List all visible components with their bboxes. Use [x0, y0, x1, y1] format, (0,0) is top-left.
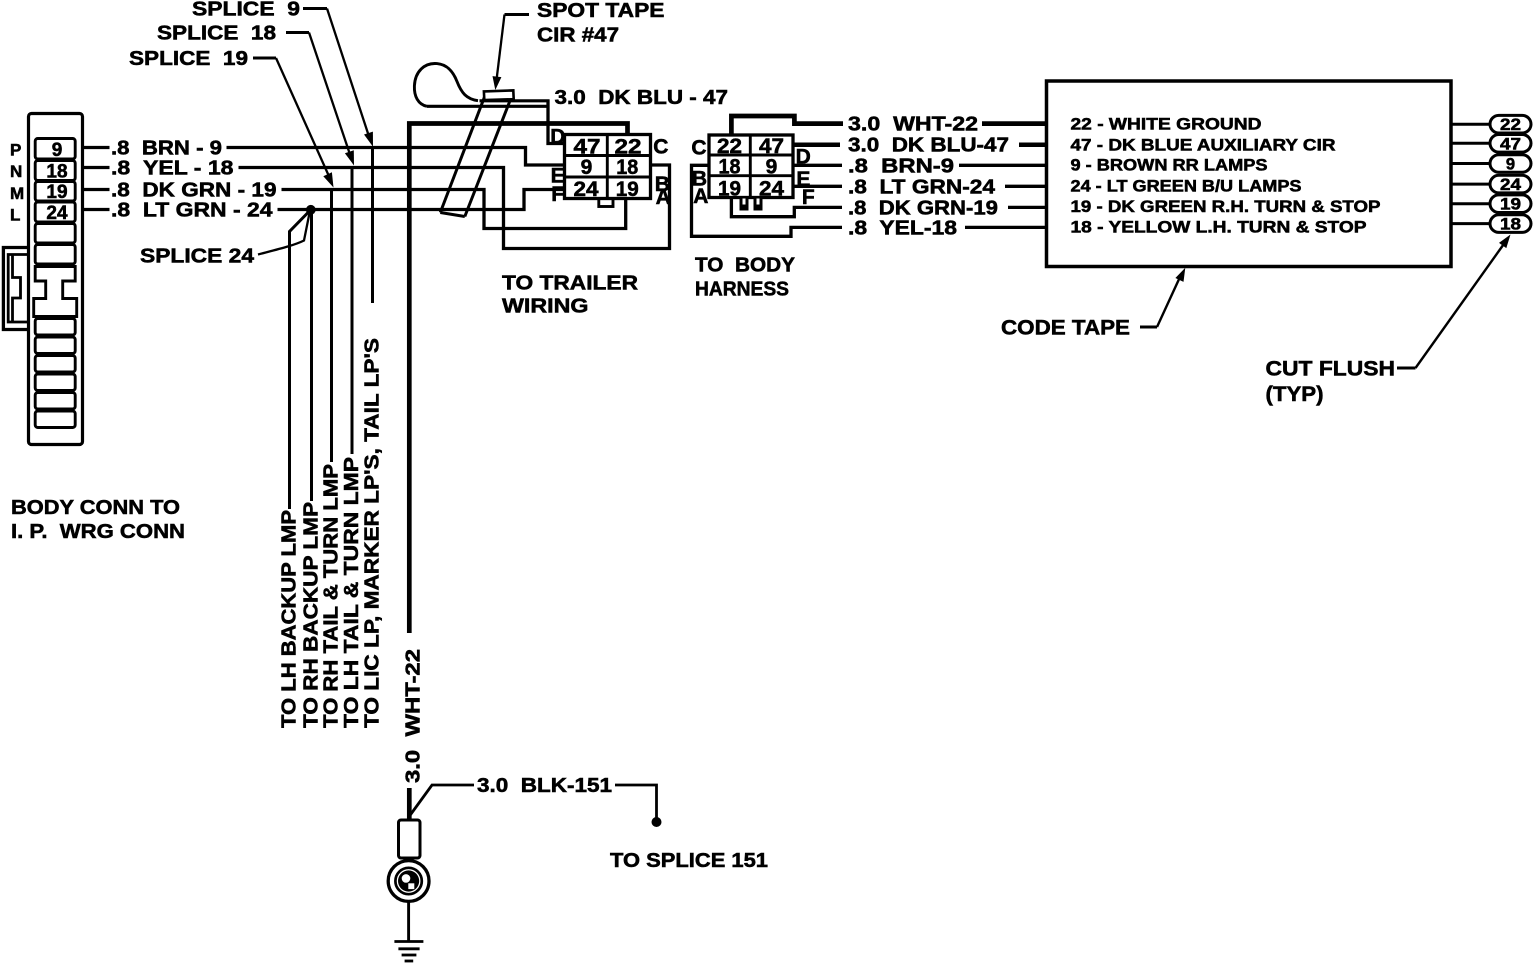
svg-text:.8 BRN - 9: .8 BRN - 9	[111, 138, 222, 160]
connector J1 pin letters P N M L	[10, 141, 24, 225]
svg-text:19 - DK GREEN R.H. TURN & STOP: 19 - DK GREEN R.H. TURN & STOP	[1071, 198, 1381, 216]
connector BODY cavity numbers	[717, 135, 784, 200]
svg-text:F: F	[551, 183, 564, 206]
svg-text:D: D	[550, 125, 565, 148]
wire lead end 22	[1490, 115, 1531, 134]
svg-text:22: 22	[1500, 116, 1521, 134]
svg-text:L: L	[10, 206, 20, 225]
tape band diagonal right	[465, 93, 513, 217]
svg-text:F: F	[802, 186, 815, 209]
tape band diagonal left	[440, 93, 486, 213]
svg-text:SPLICE 19: SPLICE 19	[129, 48, 248, 70]
wire lead end 47	[1490, 135, 1531, 154]
wire stub to lead 24	[1451, 183, 1491, 186]
svg-text:24: 24	[46, 203, 68, 224]
wire drop TO RH BACKUP LMP	[301, 212, 323, 728]
wire .8 YEL-18 from cavity 18 around left	[692, 165, 843, 236]
wire stub to lead 18	[1451, 222, 1491, 225]
svg-text:3.0 WHT-22: 3.0 WHT-22	[402, 649, 424, 783]
svg-text:TO TRAILER: TO TRAILER	[502, 272, 639, 294]
wire .8 YEL-18 run to trailer pin B	[239, 165, 670, 249]
wire 3.0 WHT-22 to code tape box	[982, 121, 1047, 126]
svg-text:TO BODY: TO BODY	[695, 255, 796, 277]
label TO BODY HARNESS	[695, 255, 796, 301]
connector TRAILER index tab	[599, 199, 613, 207]
label TO TRAILER WIRING	[502, 272, 639, 317]
ground symbol	[394, 942, 423, 962]
wire stub to lead 9	[1451, 162, 1491, 165]
svg-text:3.0 DK BLU - 47: 3.0 DK BLU - 47	[555, 87, 729, 109]
connector J1 center key I-beam	[34, 267, 77, 317]
wire .8 LT GRN-24 stub from pin F	[793, 185, 842, 188]
svg-text:.8 LT GRN - 24: .8 LT GRN - 24	[111, 200, 274, 222]
svg-text:TO LIC LP, MARKER LP'S, TAIL L: TO LIC LP, MARKER LP'S, TAIL LP'S	[362, 338, 384, 728]
terminal ring eyelet	[388, 861, 429, 902]
svg-text:24: 24	[1500, 176, 1522, 194]
wire .8 LT GRN-24 run to trailer pin F	[278, 190, 565, 210]
leader CUT FLUSH arrow to lead 18	[1397, 235, 1511, 369]
svg-text:SPOT TAPE: SPOT TAPE	[537, 0, 665, 22]
svg-text:(TYP): (TYP)	[1266, 383, 1324, 406]
wire stub to lead 22	[1451, 123, 1491, 126]
svg-text:A: A	[693, 185, 708, 208]
svg-text:19: 19	[718, 177, 741, 200]
svg-text:.8 LT GRN-24: .8 LT GRN-24	[848, 176, 996, 198]
wire drop TO LIC LP, MARKER LP'S, TAIL LP'S	[362, 148, 384, 729]
svg-text:TO LH TAIL & TURN LMP: TO LH TAIL & TURN LMP	[341, 457, 363, 728]
svg-text:47: 47	[1500, 135, 1521, 153]
wire drop TO LH BACKUP LMP	[279, 211, 310, 728]
svg-text:M: M	[10, 184, 24, 203]
svg-text:18: 18	[1500, 216, 1521, 234]
wire .8 BRN-9 run to trailer pin E	[227, 148, 565, 166]
wire .8 LT GRN-24 to code tape box	[1005, 185, 1047, 188]
wire 3.0 WHT-22 main run	[409, 124, 627, 634]
connector J1 cavity 9	[35, 139, 75, 161]
wire .8 DK GRN-19 to code tape box	[1008, 206, 1047, 209]
wire 47 pigtail loop	[414, 64, 478, 107]
wire 3.0 WHT-22 lower stub	[407, 788, 412, 820]
svg-text:19: 19	[616, 178, 639, 201]
terminal butt splice	[399, 820, 421, 858]
svg-text:9: 9	[1506, 156, 1515, 174]
leader SPOT TAPE arrow	[493, 15, 530, 91]
svg-text:TO RH TAIL & TURN LMP: TO RH TAIL & TURN LMP	[321, 464, 343, 728]
label CUT FLUSH (TYP)	[1266, 358, 1396, 407]
svg-text:22 - WHITE GROUND: 22 - WHITE GROUND	[1071, 116, 1262, 134]
svg-text:.8 BRN-9: .8 BRN-9	[848, 155, 954, 177]
svg-text:.8 DK GRN - 19: .8 DK GRN - 19	[111, 180, 277, 202]
svg-text:SPLICE 18: SPLICE 18	[157, 23, 276, 45]
svg-text:I. P. WRG CONN: I. P. WRG CONN	[11, 521, 185, 543]
svg-text:TO LH BACKUP LMP: TO LH BACKUP LMP	[279, 510, 301, 728]
leader SPLICE 18	[286, 33, 354, 166]
svg-text:18: 18	[719, 156, 741, 179]
svg-text:19: 19	[46, 182, 67, 203]
svg-text:CUT FLUSH: CUT FLUSH	[1266, 358, 1396, 381]
svg-text:N: N	[10, 162, 22, 181]
leader 3.0 BLK-151	[410, 785, 475, 816]
wire 47 lower run	[427, 105, 550, 108]
wire .8 YEL-18 stub	[83, 166, 110, 169]
svg-text:9: 9	[766, 156, 778, 179]
wire to splice 151 with dot	[615, 785, 662, 827]
wire .8 DK GRN-19 from cavity 19 under connector	[731, 198, 842, 217]
svg-text:CIR #47: CIR #47	[537, 25, 619, 47]
svg-text:P: P	[10, 141, 21, 160]
wire 3.0 DK BLU-47 drop to pin D	[548, 100, 565, 144]
svg-text:A: A	[656, 186, 671, 209]
spot tape marker rectangle	[484, 90, 514, 100]
leader SPLICE 19	[253, 58, 334, 188]
wire .8 BRN-9 to code tape box	[959, 164, 1047, 167]
connector J1 body-conn-to-IP outer shell	[29, 114, 83, 445]
svg-text:24: 24	[574, 178, 599, 201]
wire stub to lead 19	[1451, 202, 1491, 205]
svg-text:24 - LT GREEN B/U LAMPS: 24 - LT GREEN B/U LAMPS	[1071, 178, 1302, 196]
svg-text:C: C	[691, 136, 706, 159]
splice junction dot S24	[306, 205, 316, 215]
wire lead end 19	[1490, 195, 1531, 214]
connector J1 empty cavities upper	[35, 224, 75, 265]
svg-text:HARNESS: HARNESS	[695, 279, 789, 301]
connector BODY grid outline	[709, 135, 793, 198]
connector TRAILER grid outline	[565, 135, 651, 199]
connector J1 cavity 18	[35, 161, 75, 183]
wire drop TO RH TAIL & TURN LMP	[321, 190, 343, 729]
connector BODY lock tabs	[740, 199, 763, 211]
tape band bottom edge	[440, 213, 465, 217]
svg-text:.8 YEL - 18: .8 YEL - 18	[111, 158, 234, 180]
svg-text:9 - BROWN RR LAMPS: 9 - BROWN RR LAMPS	[1071, 157, 1268, 175]
svg-text:CODE TAPE: CODE TAPE	[1001, 317, 1130, 340]
wire lead end 9	[1490, 155, 1531, 174]
wire 3.0 DK BLU-47 stub from pin D	[793, 142, 840, 147]
svg-text:18: 18	[46, 161, 67, 182]
svg-text:3.0 BLK-151: 3.0 BLK-151	[477, 775, 612, 797]
connector TRAILER cavity numbers	[574, 136, 642, 202]
svg-text:WIRING: WIRING	[502, 295, 589, 317]
svg-text:3.0 DK BLU-47: 3.0 DK BLU-47	[848, 135, 1009, 157]
svg-text:19: 19	[1500, 196, 1521, 214]
leader SPLICE 9	[303, 9, 373, 147]
wire .8 BRN-9 stub from pin E	[793, 164, 842, 167]
wire .8 DK GRN-19 stub	[83, 188, 110, 191]
wire .8 DK GRN-19 run to trailer pin A	[282, 190, 626, 229]
svg-text:SPLICE 9: SPLICE 9	[192, 0, 300, 21]
svg-text:24: 24	[759, 177, 784, 200]
wire .8 YEL-18 to code tape box	[965, 226, 1047, 229]
wire 47 upper run	[480, 99, 550, 102]
wire 3.0 WHT-22 from pin C over top	[731, 116, 843, 135]
wire lead end 18	[1490, 215, 1531, 234]
svg-text:47 - DK BLUE AUXILIARY CIR: 47 - DK BLUE AUXILIARY CIR	[1071, 137, 1336, 155]
connector J1 mounting bracket	[3, 248, 28, 330]
wire lead end 24	[1490, 175, 1531, 194]
svg-text:.8 YEL-18: .8 YEL-18	[848, 217, 957, 239]
svg-text:18 - YELLOW L.H. TURN & STOP: 18 - YELLOW L.H. TURN & STOP	[1071, 219, 1367, 237]
wire 3.0 DK BLU-47 to code tape box	[1019, 142, 1047, 147]
svg-text:18: 18	[616, 156, 638, 179]
connector J1 cavity 19	[35, 182, 75, 203]
wire .8 LT GRN-24 stub	[83, 208, 110, 211]
label BODY CONN TO I.P. WRG CONN	[11, 497, 185, 543]
svg-text:SPLICE 24: SPLICE 24	[140, 246, 255, 268]
wire .8 BRN-9 stub	[83, 146, 110, 149]
leader SPLICE 24 curved	[258, 213, 310, 255]
ground lead	[407, 902, 410, 942]
svg-text:BODY CONN TO: BODY CONN TO	[11, 497, 180, 519]
code tape box	[1047, 81, 1452, 267]
svg-text:C: C	[653, 136, 668, 159]
wire stub to lead 47	[1451, 142, 1491, 145]
leader CODE TAPE arrow to box	[1140, 268, 1185, 327]
connector J1 cavity 24	[35, 202, 75, 224]
wire drop TO LH TAIL & TURN LMP	[341, 168, 363, 729]
svg-text:.8 DK GRN-19: .8 DK GRN-19	[848, 197, 998, 219]
svg-text:TO RH BACKUP LMP: TO RH BACKUP LMP	[301, 502, 323, 728]
svg-text:3.0 WHT-22: 3.0 WHT-22	[848, 114, 978, 136]
svg-text:9: 9	[52, 140, 63, 161]
svg-text:9: 9	[581, 156, 593, 179]
label SPOT TAPE CIR #47	[537, 0, 665, 47]
svg-text:TO SPLICE 151: TO SPLICE 151	[610, 850, 768, 872]
connector J1 empty cavities lower	[35, 319, 75, 428]
